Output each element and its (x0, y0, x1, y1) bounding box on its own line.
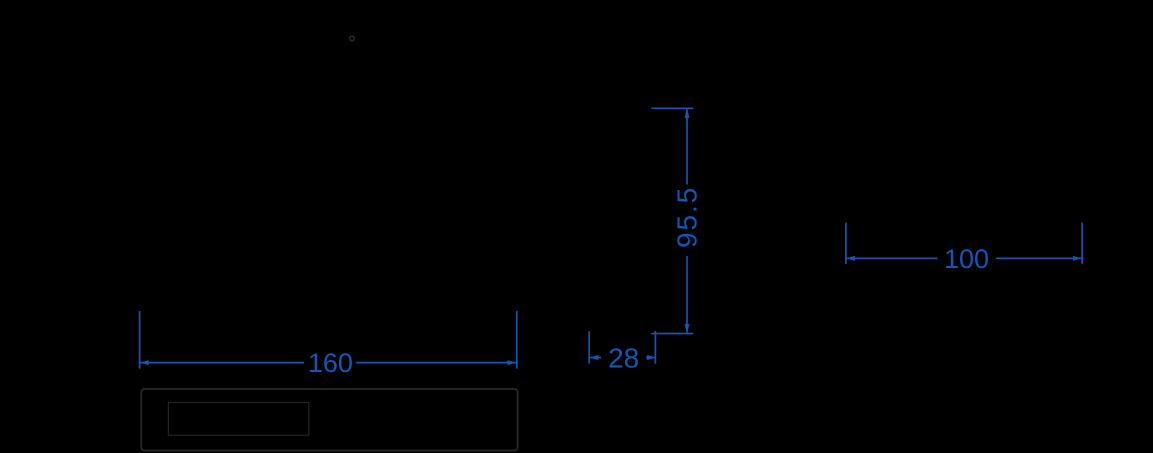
dimension 28 : right arrow with tail (points right) (646, 357, 655, 359)
inner rectangle (window on bottom view) (168, 403, 308, 436)
svg-text:160: 160 (308, 348, 353, 378)
dimension 160 : dimension line left segment (140, 362, 304, 364)
svg-text:100: 100 (944, 244, 989, 274)
dimension 100 : right extension line (1081, 223, 1083, 265)
dimension 95.5 : dimension line lower segment (686, 256, 688, 333)
dimension 100 : left extension line (845, 223, 847, 265)
dimension 160 : left arrow (points left) (140, 360, 149, 365)
dimension 100 : left arrow (points left) (847, 256, 856, 261)
dimension 95.5 : dimension line upper segment (686, 109, 688, 184)
dimension 160 : left extension line (139, 311, 141, 369)
dimension 95.5 : top arrow (up) (684, 109, 689, 118)
dimension 160 : dimension line right segment (356, 362, 516, 364)
dimension 100 : dimension line right segment (996, 257, 1082, 259)
outer rectangle (device bottom view outline) (141, 389, 517, 451)
circle detail (small hole on front view) (350, 36, 355, 41)
dimension 28 : left arrow with tail (points left) (590, 357, 601, 359)
dimension 100 : dimension line left segment (847, 257, 938, 259)
dimension 100 : right arrow (points right) (1073, 256, 1082, 261)
dimension 28 : right extension line (654, 331, 656, 364)
dimension 160 : right arrow (points right) (508, 360, 517, 365)
dimension 160 : right extension line (516, 311, 518, 369)
svg-text:95.5: 95.5 (671, 186, 702, 248)
dimension 95.5 : top extension line (651, 107, 693, 109)
dimension 28 : left extension line (588, 331, 590, 363)
dimension 95.5 : bottom extension line (651, 333, 693, 335)
dimension 95.5 : bottom arrow (down) (684, 324, 689, 333)
svg-text:28: 28 (608, 343, 639, 374)
